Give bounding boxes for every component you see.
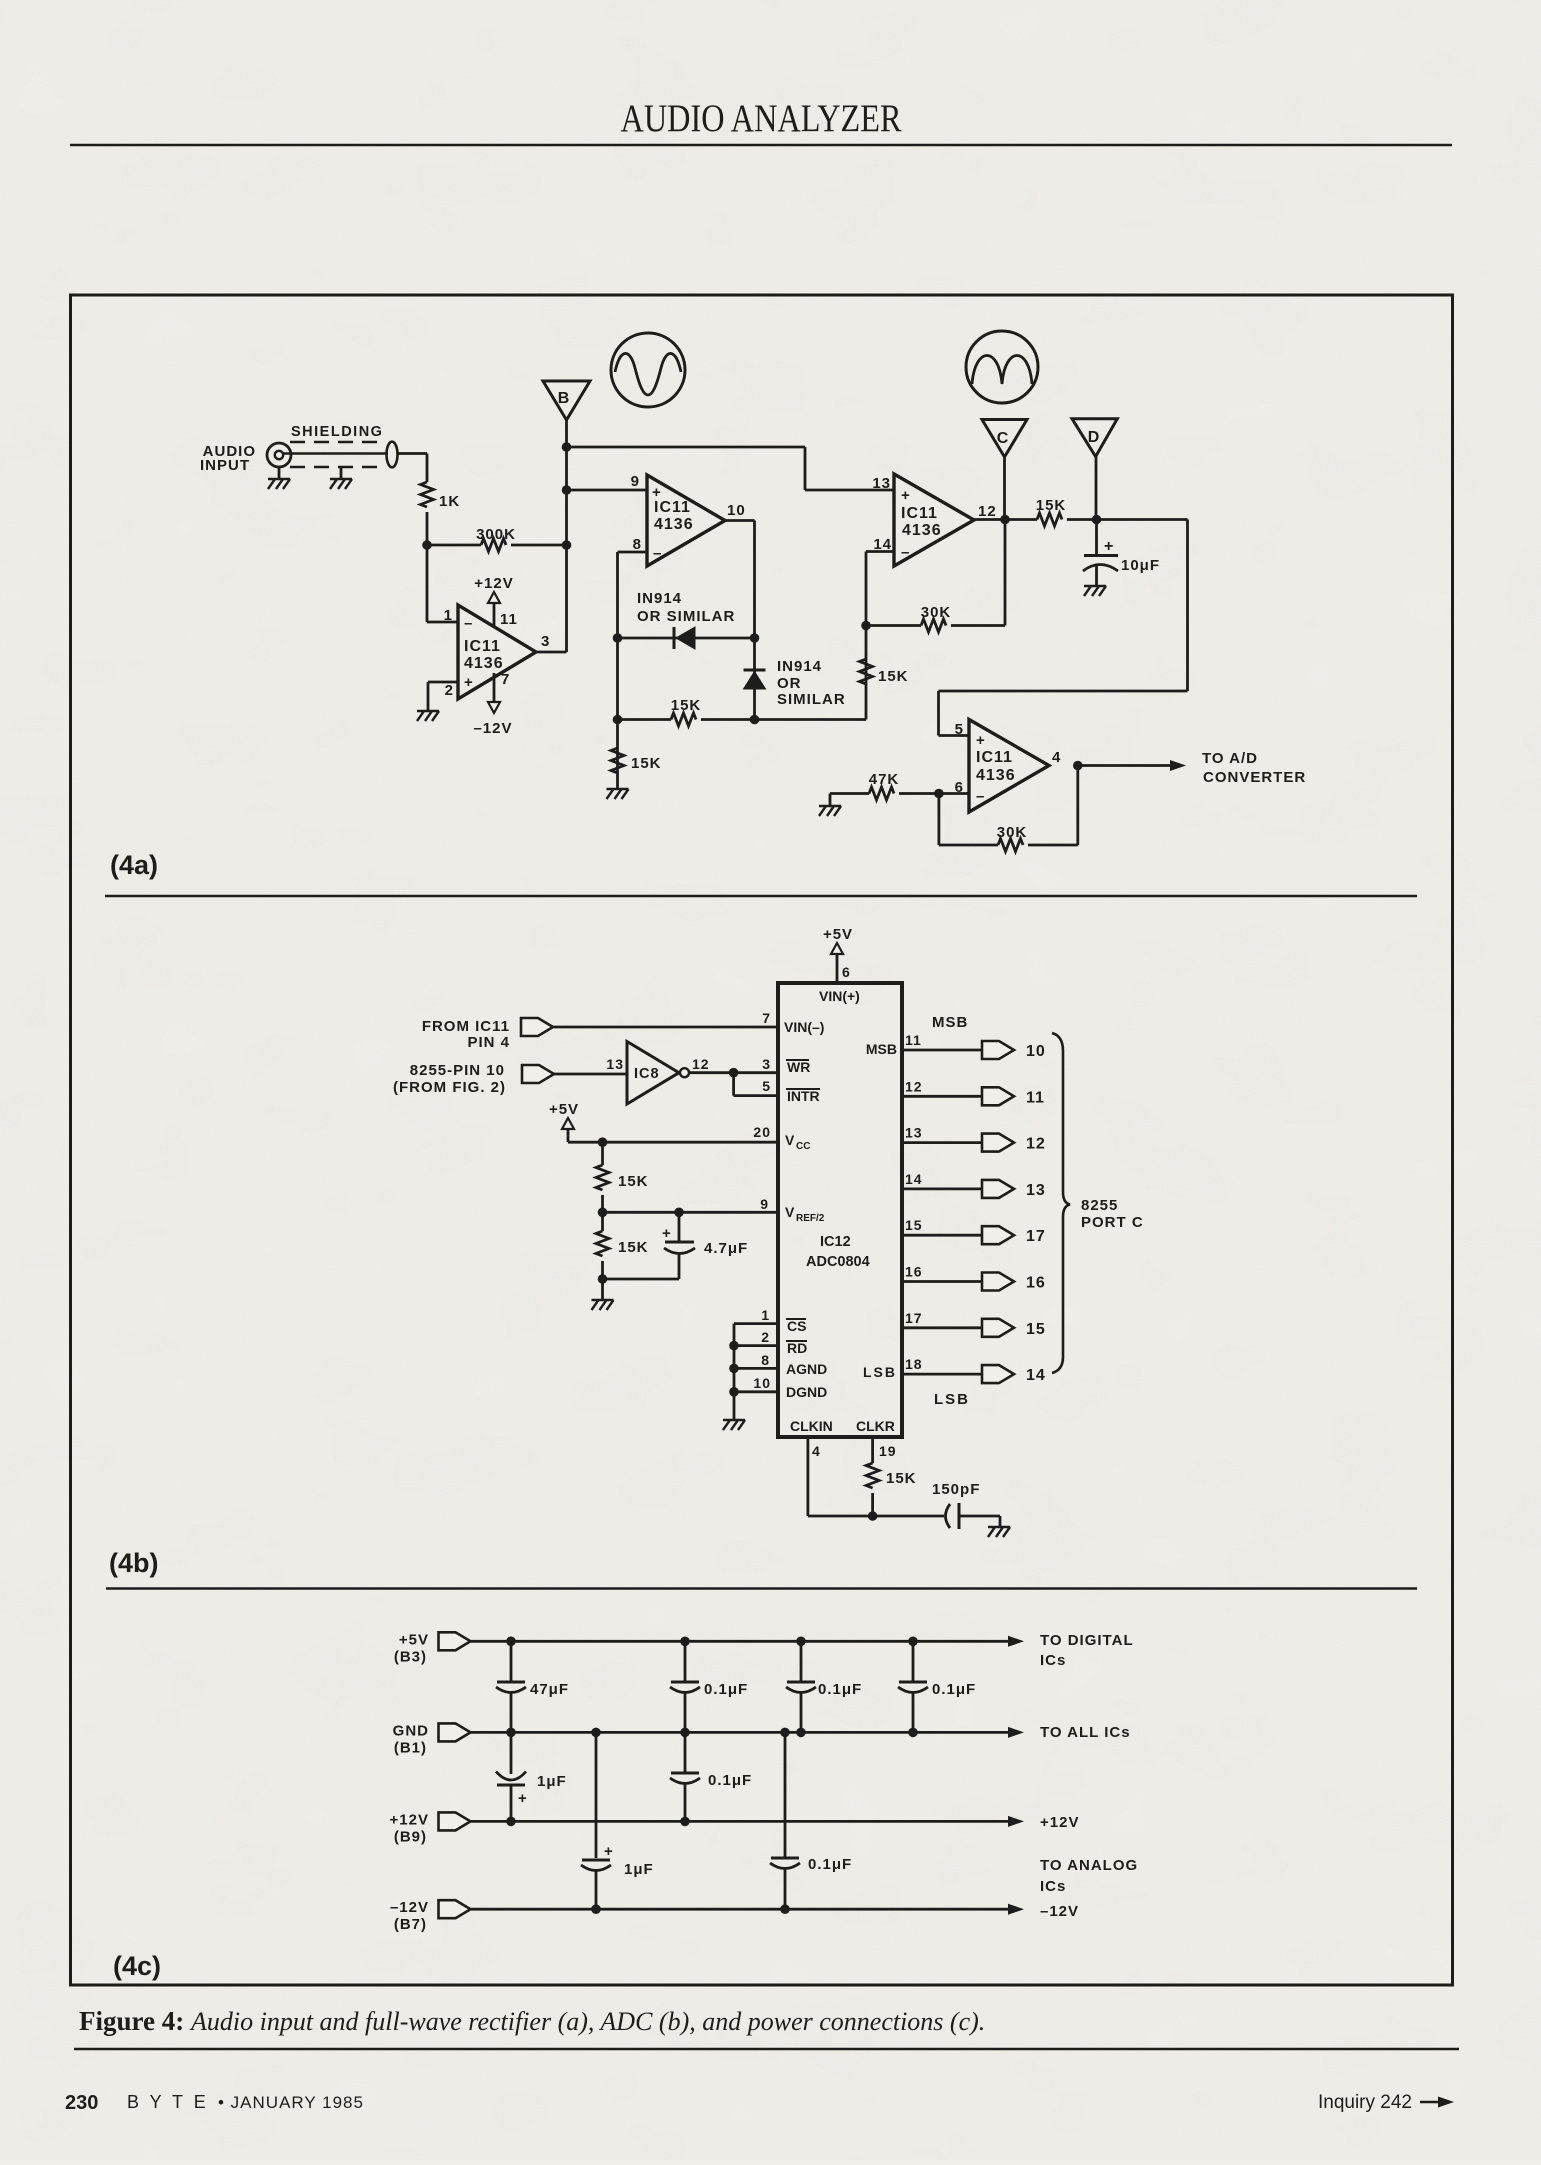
- svg-text:OR SIMILAR: OR SIMILAR: [637, 608, 735, 625]
- svg-text:B: B: [558, 390, 571, 407]
- svg-text:IC8: IC8: [634, 1066, 660, 1082]
- svg-text:47K: 47K: [869, 771, 900, 788]
- svg-text:TO ANALOG: TO ANALOG: [1040, 1857, 1138, 1874]
- svg-text:2: 2: [445, 682, 454, 699]
- svg-text:V: V: [785, 1204, 795, 1220]
- svg-text:–: –: [901, 544, 909, 561]
- svg-text:+: +: [662, 1225, 671, 1242]
- svg-text:–: –: [653, 545, 661, 562]
- svg-text:WR: WR: [787, 1059, 810, 1075]
- svg-text:CONVERTER: CONVERTER: [1203, 769, 1306, 786]
- svg-text:TO ALL ICs: TO ALL ICs: [1040, 1724, 1131, 1741]
- svg-text:2: 2: [761, 1329, 770, 1345]
- svg-text:ICs: ICs: [1040, 1878, 1066, 1895]
- svg-text:+12V: +12V: [474, 575, 513, 592]
- svg-text:3: 3: [541, 633, 550, 650]
- svg-text:+: +: [1104, 538, 1113, 555]
- svg-text:INTR: INTR: [787, 1088, 820, 1104]
- svg-text:4136: 4136: [902, 522, 942, 539]
- svg-text:10μF: 10μF: [1121, 557, 1160, 574]
- svg-text:12: 12: [978, 503, 997, 520]
- svg-text:15K: 15K: [618, 1173, 649, 1190]
- svg-text:GND: GND: [393, 1722, 429, 1739]
- svg-text:+12V: +12V: [390, 1811, 429, 1828]
- svg-text:13: 13: [905, 1125, 923, 1141]
- svg-text:4.7μF: 4.7μF: [704, 1240, 748, 1257]
- svg-text:15: 15: [1026, 1321, 1046, 1338]
- svg-text:INPUT: INPUT: [200, 457, 250, 474]
- svg-text:1: 1: [761, 1307, 770, 1323]
- svg-text:15K: 15K: [671, 697, 702, 714]
- svg-text:IC11: IC11: [654, 499, 691, 516]
- svg-text:(B3): (B3): [394, 1648, 427, 1665]
- svg-text:16: 16: [1026, 1275, 1046, 1292]
- svg-text:7: 7: [762, 1010, 771, 1026]
- svg-text:8: 8: [633, 536, 642, 553]
- svg-text:+: +: [518, 1790, 527, 1807]
- svg-text:IC11: IC11: [976, 749, 1013, 766]
- svg-text:300K: 300K: [476, 526, 516, 543]
- svg-text:10: 10: [753, 1375, 771, 1391]
- svg-text:5: 5: [955, 721, 964, 738]
- svg-text:10: 10: [727, 502, 746, 519]
- svg-text:OR: OR: [777, 675, 802, 692]
- svg-text:20: 20: [753, 1124, 771, 1140]
- svg-text:9: 9: [760, 1196, 769, 1212]
- svg-text:IN914: IN914: [637, 590, 682, 607]
- svg-text:0.1μF: 0.1μF: [704, 1681, 748, 1698]
- svg-text:17: 17: [1026, 1228, 1046, 1245]
- svg-text:(B9): (B9): [394, 1828, 427, 1845]
- svg-text:8255: 8255: [1081, 1197, 1118, 1214]
- svg-text:4: 4: [812, 1443, 821, 1459]
- svg-text:230: 230: [65, 2092, 98, 2114]
- svg-text:+5V: +5V: [549, 1101, 579, 1118]
- svg-text:PORT C: PORT C: [1081, 1214, 1144, 1231]
- svg-text:14: 14: [1026, 1367, 1046, 1384]
- svg-text:CC: CC: [796, 1141, 810, 1152]
- svg-text:RD: RD: [787, 1340, 807, 1356]
- svg-text:IC11: IC11: [901, 505, 938, 522]
- svg-text:DGND: DGND: [786, 1384, 827, 1400]
- svg-text:TO A/D: TO A/D: [1202, 750, 1258, 767]
- svg-text:1K: 1K: [439, 493, 460, 510]
- svg-text:SIMILAR: SIMILAR: [777, 691, 846, 708]
- svg-text:4136: 4136: [976, 767, 1016, 784]
- svg-text:(4a): (4a): [110, 850, 158, 880]
- svg-text:TO DIGITAL: TO DIGITAL: [1040, 1632, 1134, 1649]
- svg-text:ICs: ICs: [1040, 1652, 1066, 1669]
- svg-text:–12V: –12V: [390, 1899, 429, 1916]
- svg-text:B Y T E: B Y T E: [127, 2092, 209, 2112]
- svg-text:4: 4: [1052, 749, 1061, 766]
- svg-text:AUDIO ANALYZER: AUDIO ANALYZER: [621, 97, 902, 140]
- svg-text:MSB: MSB: [866, 1041, 897, 1057]
- svg-text:+12V: +12V: [1040, 1814, 1079, 1831]
- svg-text:C: C: [997, 430, 1010, 447]
- svg-text:47μF: 47μF: [530, 1681, 569, 1698]
- svg-text:15K: 15K: [1036, 497, 1067, 514]
- svg-text:0.1μF: 0.1μF: [932, 1681, 976, 1698]
- svg-text:LSB: LSB: [934, 1391, 970, 1408]
- svg-text:AGND: AGND: [786, 1361, 827, 1377]
- svg-text:VIN(–): VIN(–): [784, 1019, 824, 1035]
- svg-text:1μF: 1μF: [624, 1861, 654, 1878]
- svg-text:LSB: LSB: [863, 1364, 897, 1380]
- svg-text:13: 13: [1026, 1182, 1046, 1199]
- svg-text:15K: 15K: [631, 755, 662, 772]
- svg-text:14: 14: [873, 536, 892, 553]
- svg-text:(4b): (4b): [109, 1548, 159, 1578]
- svg-text:IC12: IC12: [820, 1234, 851, 1250]
- svg-text:CLKIN: CLKIN: [790, 1418, 833, 1434]
- svg-text:–: –: [976, 788, 984, 805]
- svg-text:V: V: [785, 1132, 795, 1148]
- svg-text:• JANUARY 1985: • JANUARY 1985: [218, 2093, 364, 2112]
- svg-text:(B1): (B1): [394, 1739, 427, 1756]
- svg-text:12: 12: [692, 1056, 710, 1072]
- svg-text:15: 15: [905, 1217, 923, 1233]
- svg-text:11: 11: [500, 611, 518, 628]
- svg-text:1: 1: [444, 607, 453, 624]
- svg-text:(4c): (4c): [113, 1951, 161, 1981]
- svg-text:(FROM FIG. 2): (FROM FIG. 2): [393, 1079, 506, 1096]
- svg-text:SHIELDING: SHIELDING: [291, 424, 383, 440]
- svg-text:–12V: –12V: [1040, 1903, 1079, 1920]
- svg-text:(B7): (B7): [394, 1916, 427, 1933]
- svg-text:CLKR: CLKR: [856, 1418, 895, 1434]
- svg-text:11: 11: [905, 1032, 922, 1048]
- svg-text:MSB: MSB: [932, 1014, 968, 1031]
- svg-text:–: –: [464, 615, 472, 632]
- svg-text:12: 12: [905, 1078, 923, 1094]
- svg-text:ADC0804: ADC0804: [806, 1254, 870, 1270]
- svg-text:+5V: +5V: [823, 926, 853, 943]
- svg-text:D: D: [1088, 429, 1101, 446]
- svg-text:+: +: [901, 487, 910, 504]
- svg-text:15K: 15K: [618, 1239, 649, 1256]
- svg-text:15K: 15K: [878, 668, 909, 685]
- svg-text:+: +: [464, 674, 473, 691]
- svg-text:17: 17: [905, 1310, 923, 1326]
- svg-text:+: +: [604, 1843, 613, 1860]
- svg-text:3: 3: [762, 1056, 771, 1072]
- svg-text:18: 18: [905, 1356, 923, 1372]
- svg-text:13: 13: [872, 475, 891, 492]
- svg-text:IN914: IN914: [777, 658, 822, 675]
- svg-text:13: 13: [606, 1056, 624, 1072]
- svg-text:4136: 4136: [464, 655, 504, 672]
- svg-text:VIN(+): VIN(+): [819, 988, 860, 1004]
- svg-text:0.1μF: 0.1μF: [708, 1772, 752, 1789]
- svg-text:12: 12: [1026, 1136, 1046, 1153]
- svg-text:0.1μF: 0.1μF: [808, 1856, 852, 1873]
- svg-text:30K: 30K: [921, 604, 952, 621]
- svg-text:5: 5: [762, 1078, 771, 1094]
- svg-text:1μF: 1μF: [537, 1773, 567, 1790]
- svg-text:15K: 15K: [886, 1470, 917, 1487]
- svg-text:16: 16: [905, 1264, 923, 1280]
- svg-text:Inquiry 242: Inquiry 242: [1318, 2092, 1412, 2113]
- svg-text:11: 11: [1026, 1089, 1045, 1106]
- svg-text:–12V: –12V: [473, 720, 512, 737]
- svg-text:PIN 4: PIN 4: [467, 1034, 510, 1051]
- svg-text:8: 8: [761, 1352, 770, 1368]
- svg-text:IC11: IC11: [464, 638, 501, 655]
- svg-text:FROM IC11: FROM IC11: [422, 1018, 510, 1035]
- svg-text:8255-PIN 10: 8255-PIN 10: [410, 1062, 505, 1079]
- svg-text:REF/2: REF/2: [796, 1213, 825, 1224]
- svg-text:Figure 4: Audio input and full: Figure 4: Audio input and full-wave rect…: [79, 2006, 985, 2036]
- svg-text:10: 10: [1026, 1043, 1046, 1060]
- svg-text:0.1μF: 0.1μF: [818, 1681, 862, 1698]
- svg-text:9: 9: [631, 473, 640, 490]
- svg-text:150pF: 150pF: [932, 1481, 980, 1498]
- svg-text:14: 14: [905, 1171, 923, 1187]
- svg-text:CS: CS: [787, 1318, 806, 1334]
- svg-text:7: 7: [501, 671, 510, 688]
- svg-text:4136: 4136: [654, 516, 694, 533]
- svg-text:6: 6: [842, 964, 851, 980]
- svg-text:+: +: [976, 732, 985, 749]
- svg-text:30K: 30K: [997, 824, 1028, 841]
- svg-text:+5V: +5V: [399, 1631, 429, 1648]
- svg-text:19: 19: [879, 1443, 897, 1459]
